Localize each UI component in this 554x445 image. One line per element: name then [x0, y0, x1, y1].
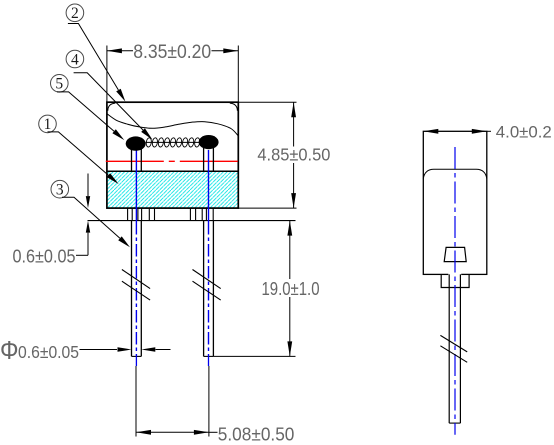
- svg-text:2: 2: [71, 5, 79, 22]
- svg-text:4: 4: [71, 51, 79, 68]
- svg-text:8.35±0.20: 8.35±0.20: [133, 41, 211, 63]
- svg-text:4.85±0.50: 4.85±0.50: [257, 145, 330, 165]
- svg-text:5.08±0.50: 5.08±0.50: [218, 423, 295, 444]
- svg-text:Φ: Φ: [0, 335, 19, 365]
- svg-text:19.0±1.0: 19.0±1.0: [262, 278, 320, 299]
- svg-text:5: 5: [55, 76, 63, 93]
- svg-text:4.0±0.2: 4.0±0.2: [496, 123, 552, 141]
- svg-text:3: 3: [56, 182, 64, 199]
- svg-text:0.6±0.05: 0.6±0.05: [13, 245, 76, 266]
- svg-text:1: 1: [44, 116, 52, 133]
- svg-text:0.6±0.05: 0.6±0.05: [18, 342, 79, 362]
